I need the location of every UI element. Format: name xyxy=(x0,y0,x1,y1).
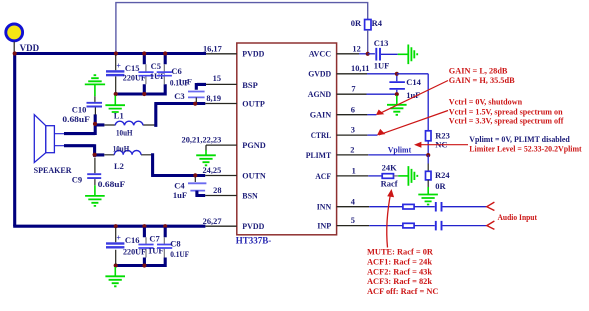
pin name OUTP xyxy=(242,99,265,109)
VDD terminal xyxy=(6,24,23,52)
pin number 3 xyxy=(351,126,355,135)
pin number 6 xyxy=(351,105,355,114)
svg-text:3: 3 xyxy=(351,126,355,135)
svg-text:1uF: 1uF xyxy=(173,190,187,200)
svg-text:OUTN: OUTN xyxy=(242,170,266,180)
pin number 24,25 xyxy=(202,166,221,175)
wire speaker plus to L1/C10 junction xyxy=(64,114,104,135)
wire INP resistor to capacitor xyxy=(414,225,435,227)
svg-text:Vplimt: Vplimt xyxy=(388,145,412,155)
wire pin 10,11 GVDD xyxy=(337,73,397,75)
svg-text:Vctrl = 0V, shutdown: Vctrl = 0V, shutdown xyxy=(449,98,523,107)
wire bottom decoupling bus under C16 C7 C8 xyxy=(114,228,165,268)
svg-text:GAIN = H, 35.5dB: GAIN = H, 35.5dB xyxy=(449,76,515,85)
ground right of C13 (rotated) xyxy=(398,45,417,65)
wire pin 1 ACF xyxy=(337,175,382,177)
resistor Racf labels xyxy=(381,163,398,189)
svg-text:Vctrl = 1.5V, spread spectrum: Vctrl = 1.5V, spread spectrum on xyxy=(449,107,563,116)
svg-text:20,21,22,23: 20,21,22,23 xyxy=(182,136,222,145)
resistor R4 labels xyxy=(351,18,383,28)
resistor R23 xyxy=(426,131,432,155)
pin name INP xyxy=(317,221,332,231)
ground above C10 (inverted) xyxy=(85,75,105,102)
pin name INN xyxy=(317,202,332,212)
op-amp U1 HT337B body xyxy=(237,43,337,235)
svg-text:16,17: 16,17 xyxy=(203,44,222,53)
svg-text:ACF3: Racf = 82k: ACF3: Racf = 82k xyxy=(367,277,432,286)
svg-text:2: 2 xyxy=(350,146,354,155)
svg-text:12: 12 xyxy=(352,44,360,53)
inductor L1 xyxy=(104,121,155,125)
svg-text:PLIMT: PLIMT xyxy=(306,150,332,160)
wire INN resistor to capacitor xyxy=(414,206,435,208)
svg-text:C16: C16 xyxy=(125,235,140,245)
pin number 28 xyxy=(213,186,221,195)
wire pin 26,27 PVDD bottom xyxy=(205,225,236,227)
svg-text:ACF off: Racf = NC: ACF off: Racf = NC xyxy=(367,287,438,296)
svg-text:GAIN = L, 28dB: GAIN = L, 28dB xyxy=(449,66,508,75)
junction speaker minus xyxy=(93,153,97,157)
annotation Vplimt text line 2 xyxy=(469,145,582,154)
wire L1 to OUTP pin 8,19 xyxy=(154,104,205,127)
speaker label xyxy=(34,165,73,175)
annotation Vplimt text line 1 xyxy=(469,135,570,144)
svg-text:10,11: 10,11 xyxy=(351,64,369,73)
wire pin 3 CTRL xyxy=(337,134,378,136)
svg-text:HT337B-: HT337B- xyxy=(236,235,272,245)
svg-text:1: 1 xyxy=(352,167,356,176)
resistor R24 labels xyxy=(435,170,450,191)
capacitor C7 labels xyxy=(148,234,164,256)
svg-text:10uH: 10uH xyxy=(113,143,130,153)
ground below C14 xyxy=(387,96,407,115)
capacitor C15 electrolytic xyxy=(106,55,124,93)
svg-text:C9: C9 xyxy=(72,174,82,184)
svg-text:C4: C4 xyxy=(174,180,185,190)
annotation Racf text xyxy=(367,248,438,296)
pin name OUTN xyxy=(242,170,266,180)
wire VDD top rail horizontal to PVDD pin 16,17 xyxy=(13,52,206,55)
svg-text:GVDD: GVDD xyxy=(308,69,331,79)
capacitor C16 labels xyxy=(123,235,146,256)
resistor R4 xyxy=(365,20,371,54)
ground below C9 xyxy=(85,185,105,206)
ground PGND xyxy=(196,150,216,165)
svg-text:Limiter Level = 52.33-20.2Vpli: Limiter Level = 52.33-20.2Vplimt xyxy=(469,145,582,154)
annotation Vplimt arrow xyxy=(414,142,468,148)
pin name ACF xyxy=(315,171,331,181)
capacitor C8 labels xyxy=(170,238,189,258)
wire INN capacitor to connector xyxy=(443,206,487,208)
pin name BSN xyxy=(242,190,258,200)
svg-text:1uF: 1uF xyxy=(178,77,192,87)
svg-text:Audio Input: Audio Input xyxy=(498,213,538,222)
annotation Vctrl text xyxy=(449,98,564,126)
junction C8 bottom rail xyxy=(163,224,167,228)
wire pin 20,21,22,23 PGND xyxy=(206,145,237,150)
svg-text:ACF: ACF xyxy=(315,171,331,181)
svg-text:C13: C13 xyxy=(374,38,389,48)
wire pin 28 BSN xyxy=(205,195,237,197)
junction GVDD C14 xyxy=(395,72,399,76)
svg-text:R24: R24 xyxy=(435,170,450,180)
svg-text:0.68uF: 0.68uF xyxy=(98,179,126,189)
node label Vplimt xyxy=(388,145,412,155)
pin number 15 xyxy=(213,74,221,83)
svg-text:PVDD: PVDD xyxy=(242,221,264,231)
ground below decoupling bus xyxy=(105,96,125,113)
svg-text:24K: 24K xyxy=(382,163,398,173)
capacitor C3 bootstrap xyxy=(188,83,206,103)
wire decoupling bus under C15 C5 C6 xyxy=(114,55,165,96)
svg-text:C3: C3 xyxy=(174,91,184,101)
svg-text:C5: C5 xyxy=(151,61,161,71)
label Audio Input xyxy=(498,213,538,222)
svg-text:MUTE: Racf = 0R: MUTE: Racf = 0R xyxy=(367,248,434,257)
svg-text:C8: C8 xyxy=(170,238,180,248)
svg-text:PGND: PGND xyxy=(242,140,265,150)
junction C7 bottom rail xyxy=(142,224,146,228)
svg-text:Vctrl = 3.3V, spread spectrum: Vctrl = 3.3V, spread spectrum off xyxy=(449,117,564,126)
pin number 12 xyxy=(352,44,360,53)
svg-text:ACF1: Racf = 24k: ACF1: Racf = 24k xyxy=(367,258,432,267)
capacitor C14 xyxy=(389,74,405,94)
inductor L2 xyxy=(104,150,152,154)
ground below R24 xyxy=(418,187,438,205)
pin name PVDD left bottom xyxy=(242,221,264,231)
junction Vplimt R23 R24 xyxy=(426,153,430,157)
capacitor C8 xyxy=(157,237,172,257)
annotation GAIN arrow xyxy=(376,81,448,115)
svg-text:26,27: 26,27 xyxy=(203,217,222,226)
pin number 8,19 xyxy=(206,94,221,103)
pin name PVDD left top xyxy=(242,49,264,59)
wire VDD left rail vertical xyxy=(13,54,16,227)
svg-text:ACF2: Racf = 43k: ACF2: Racf = 43k xyxy=(367,267,432,276)
svg-text:7: 7 xyxy=(351,85,355,94)
capacitor C7 xyxy=(138,237,153,257)
pin name PLIMT xyxy=(306,150,332,160)
wire pin 16,17 PVDD xyxy=(206,53,237,55)
resistor R23 labels xyxy=(435,130,450,149)
svg-text:PVDD: PVDD xyxy=(242,49,264,59)
svg-text:AVCC: AVCC xyxy=(309,49,332,59)
pin number 16,17 xyxy=(203,44,222,53)
resistor Racf xyxy=(382,174,398,179)
speaker LS1 xyxy=(34,115,64,163)
resistor R input INN xyxy=(403,204,414,209)
svg-text:10uH: 10uH xyxy=(116,128,133,138)
wire GVDD to R23 xyxy=(397,74,428,131)
pin name GAIN xyxy=(310,110,332,120)
node VDD label xyxy=(20,43,40,53)
svg-text:1UF: 1UF xyxy=(374,61,390,71)
junction AGND C14 xyxy=(395,92,399,96)
svg-text:AGND: AGND xyxy=(308,89,332,99)
ground below bottom bus xyxy=(105,267,125,286)
pin number 20,21,22,23 xyxy=(182,136,222,145)
wire pin 6 GAIN xyxy=(337,114,377,116)
U1 part label HT337B- xyxy=(236,235,272,245)
pin number 4 xyxy=(351,197,356,206)
svg-text:BSN: BSN xyxy=(242,190,258,200)
junction C15 top rail xyxy=(114,51,118,55)
wire speaker minus to L2/C9 junction xyxy=(64,144,104,157)
pin name PGND xyxy=(242,140,265,150)
wire top feedback run from VDD rail to R4 xyxy=(116,3,368,52)
connector audio input INN xyxy=(487,202,495,210)
wire pin 2 PLIMT / node Vplimt xyxy=(337,154,429,156)
capacitor C13 labels xyxy=(374,38,390,70)
svg-text:220UF: 220UF xyxy=(123,72,146,82)
junction C4 OUTN xyxy=(193,173,197,177)
resistor R input INP xyxy=(403,223,414,228)
junction C7 bus xyxy=(142,263,146,267)
pin name GVDD xyxy=(308,69,331,79)
pin number 2 xyxy=(350,146,354,155)
capacitor C14 labels xyxy=(406,77,421,100)
svg-text:+: + xyxy=(116,61,121,70)
svg-text:8,19: 8,19 xyxy=(206,94,221,103)
capacitor C5 xyxy=(138,64,153,84)
svg-text:5: 5 xyxy=(351,216,355,225)
capacitor C4 bootstrap xyxy=(188,177,206,196)
svg-text:Racf: Racf xyxy=(381,178,398,188)
pin name AGND xyxy=(308,89,332,99)
capacitor C4 labels xyxy=(173,180,187,200)
pin name BSP xyxy=(242,80,258,90)
junction C16 bottom rail xyxy=(114,224,118,228)
capacitor input INP xyxy=(436,221,442,231)
inductor L1 labels xyxy=(114,111,133,138)
svg-text:OUTP: OUTP xyxy=(242,99,265,109)
svg-text:Vplimt = 0V, PLIMT disabled: Vplimt = 0V, PLIMT disabled xyxy=(469,135,570,144)
pin number 10,11 xyxy=(351,64,369,73)
svg-text:SPEAKER: SPEAKER xyxy=(34,165,73,175)
svg-text:0.1UF: 0.1UF xyxy=(170,249,189,259)
svg-text:VDD: VDD xyxy=(20,43,40,53)
capacitor C9 labels xyxy=(72,174,126,189)
svg-text:BSP: BSP xyxy=(242,80,258,90)
svg-text:6: 6 xyxy=(351,105,355,114)
pin number 26,27 xyxy=(203,217,222,226)
pin number 1 xyxy=(352,167,356,176)
svg-text:R4: R4 xyxy=(372,18,383,28)
junction C5 bus xyxy=(142,92,146,96)
svg-text:INN: INN xyxy=(317,202,332,212)
junction C6 top rail xyxy=(163,51,167,55)
svg-text:C14: C14 xyxy=(406,77,421,87)
wire pin 15 BSP xyxy=(206,83,237,85)
capacitor C15 labels xyxy=(123,63,146,83)
capacitor C16 electrolytic xyxy=(106,228,124,265)
svg-text:24,25: 24,25 xyxy=(202,166,221,175)
capacitor C6 xyxy=(157,64,172,84)
ground right of Racf (rotated) xyxy=(398,166,417,186)
junction C5 top rail xyxy=(142,51,146,55)
svg-text:1UF: 1UF xyxy=(148,245,164,255)
wire pin 4 INN xyxy=(337,206,403,208)
capacitor C6 labels xyxy=(170,66,192,87)
capacitor C10 xyxy=(87,103,103,115)
svg-text:+: + xyxy=(116,234,121,243)
svg-text:L2: L2 xyxy=(114,161,124,171)
capacitor C5 labels xyxy=(150,61,166,81)
svg-text:C15: C15 xyxy=(125,63,140,73)
wire pin 8,19 OUTP xyxy=(205,103,237,105)
wire L2 to OUTN pin 24,25 xyxy=(151,153,205,175)
capacitor input INN xyxy=(436,202,442,212)
junction C3 OUTP xyxy=(193,102,197,106)
svg-text:GAIN: GAIN xyxy=(310,110,332,120)
svg-text:0R: 0R xyxy=(435,181,446,191)
capacitor C9 xyxy=(87,158,101,186)
svg-text:28: 28 xyxy=(213,186,221,195)
capacitor C13 xyxy=(368,48,398,61)
junction speaker plus xyxy=(93,122,97,126)
junction C16 bus xyxy=(114,263,118,267)
pin number 7 xyxy=(351,85,355,94)
pin number 5 xyxy=(351,216,355,225)
svg-text:C6: C6 xyxy=(171,66,181,76)
pin name CTRL xyxy=(311,130,332,140)
svg-text:CTRL: CTRL xyxy=(311,130,332,140)
junction C15 bus xyxy=(114,92,118,96)
svg-text:C10: C10 xyxy=(72,104,87,114)
annotation Racf arrow xyxy=(387,189,394,248)
capacitor C10 labels xyxy=(62,104,90,124)
resistor R24 xyxy=(426,155,432,187)
capacitor C3 label xyxy=(174,91,184,101)
pin name AVCC xyxy=(309,49,332,59)
svg-text:C7: C7 xyxy=(149,234,160,244)
svg-text:INP: INP xyxy=(317,221,332,231)
annotation GAIN text xyxy=(449,66,515,85)
wire pin 7 AGND xyxy=(337,93,397,95)
connector audio input INP xyxy=(487,221,495,229)
annotation Vctrl arrow xyxy=(377,111,448,136)
junction VDD rail xyxy=(13,51,17,55)
wire pin 5 INP xyxy=(337,225,403,227)
junction AVCC R4 C13 xyxy=(366,52,370,56)
svg-text:0.68uF: 0.68uF xyxy=(62,114,90,124)
wire bottom rail to PVDD pin 26,27 xyxy=(13,225,205,228)
svg-text:15: 15 xyxy=(213,74,221,83)
inductor L2 labels xyxy=(113,143,130,171)
wire pin 12 AVCC xyxy=(337,53,367,55)
wire INP capacitor to connector xyxy=(443,225,487,227)
wire pin 24,25 OUTN xyxy=(205,175,237,177)
svg-text:0R: 0R xyxy=(351,18,362,28)
